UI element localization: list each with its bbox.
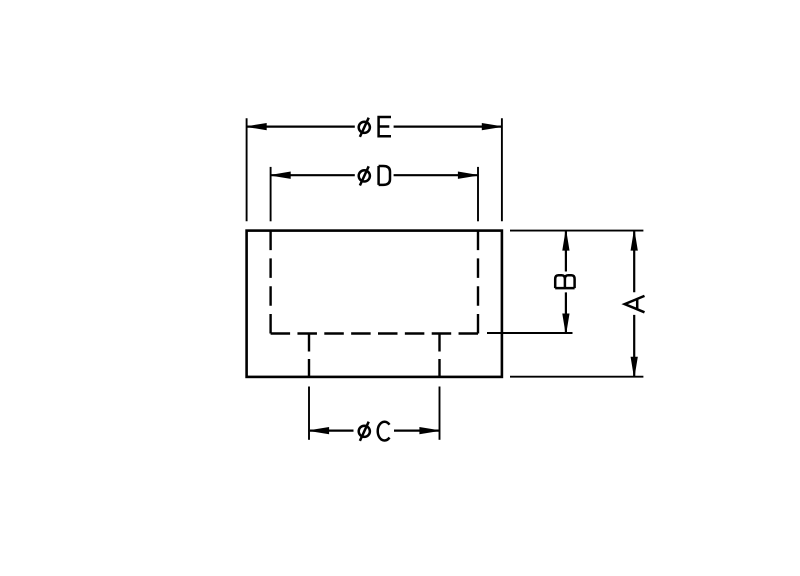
dimension E line	[247, 125, 501, 127]
hidden bore right edge (dashed)	[477, 231, 479, 334]
hidden bore left edge (dashed)	[269, 231, 271, 334]
hidden bore bottom edge (dashed)	[271, 332, 478, 334]
dimension A arrow top	[631, 232, 637, 251]
dimension C arrow left	[310, 428, 329, 434]
dimension D arrow right	[458, 172, 477, 178]
part body outline (solid rectangle)	[247, 231, 502, 377]
dimension D diameter symbol	[359, 166, 370, 185]
dimension D extension line right	[477, 167, 479, 221]
dimension B arrow bottom	[563, 314, 569, 333]
dimension E extension line right	[501, 118, 503, 221]
dimension D letter D	[379, 166, 390, 185]
extension line right bottom	[510, 376, 643, 378]
dimension C diameter symbol	[359, 422, 370, 441]
dimension C extension line left	[308, 387, 310, 440]
dimension A line	[633, 231, 635, 376]
dimension B arrow top	[563, 232, 569, 251]
dimension C letter C	[378, 422, 390, 441]
dimension A arrow bottom	[631, 357, 637, 376]
dimension D line	[271, 174, 477, 176]
dimension E arrow right	[482, 124, 501, 130]
dimension B letter B (rotated)	[555, 275, 574, 288]
dimension C arrow right	[420, 428, 439, 434]
dimension C extension line right	[439, 387, 441, 440]
dimension D extension line left	[270, 167, 272, 221]
hidden hole right edge (dashed)	[438, 334, 440, 378]
hidden hole left edge (dashed)	[308, 334, 310, 378]
dimension D arrow left	[272, 172, 291, 178]
extension line right middle	[487, 332, 573, 334]
extension line right top	[510, 230, 643, 232]
dimension E diameter symbol	[359, 118, 370, 137]
dimension E arrow left	[248, 124, 267, 130]
dimension E letter E	[379, 117, 391, 136]
dimension B line	[565, 231, 567, 333]
dimension A letter A (rotated)	[625, 296, 645, 312]
dimension C line	[310, 430, 439, 432]
dimension E extension line left	[246, 118, 248, 221]
